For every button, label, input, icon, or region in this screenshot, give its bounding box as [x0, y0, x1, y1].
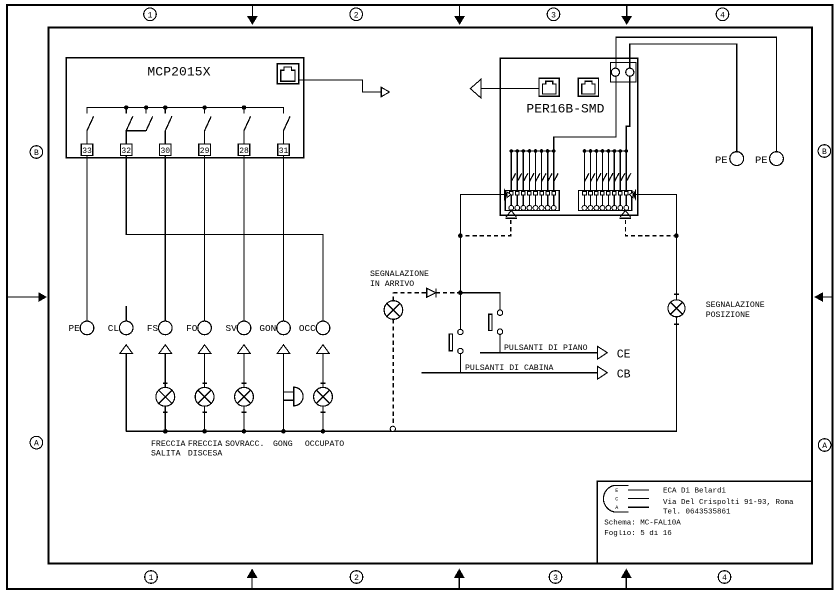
- label FRECCIA DISCESA: [188, 440, 222, 459]
- relay contact pin: [606, 149, 613, 210]
- rail junction dot: [281, 429, 286, 434]
- svg-text:CE: CE: [617, 349, 631, 362]
- svg-text:Via Del Crispolti 91-93, Roma: Via Del Crispolti 91-93, Roma: [663, 499, 794, 507]
- bus junction dot: [242, 105, 246, 113]
- wire switch to terminal 28: [243, 131, 245, 144]
- rail junction dot: [242, 429, 247, 434]
- wire switch to terminal 32: [125, 131, 127, 144]
- wire switch to terminal 29: [204, 131, 206, 144]
- junction dot left: [458, 233, 463, 238]
- zone marker 2 top: [350, 8, 363, 21]
- wire 33 to PE: [86, 156, 88, 322]
- zone marker 1 top: [144, 8, 157, 21]
- svg-text:A: A: [615, 505, 618, 511]
- lamp OCC: [314, 387, 333, 406]
- relay contact pin: [618, 149, 625, 210]
- rail junction dot: [321, 429, 326, 434]
- relay contact pin: [533, 149, 540, 210]
- bus junction dot: [202, 105, 206, 113]
- terminal 30 of U1: [160, 144, 172, 156]
- svg-text:A: A: [34, 440, 39, 449]
- svg-text:4: 4: [720, 11, 725, 20]
- zone marker 3 bottom: [549, 571, 562, 584]
- svg-text:Tel. 0643535861: Tel. 0643535861: [663, 509, 731, 517]
- wire TB1 pin1 down to left relay bus: [554, 76, 616, 151]
- connector J3 RJ45 jack on U2: [578, 78, 598, 96]
- schema reference text: [604, 520, 681, 539]
- arrow symbol under GON: [277, 345, 290, 354]
- arrow symbol under FO: [198, 345, 211, 354]
- relay contact pin: [624, 149, 631, 210]
- relay contact pin: [521, 149, 528, 210]
- diode in arrivo line: [427, 288, 436, 297]
- wire junction down to button S1: [459, 293, 461, 330]
- svg-text:SEGNALAZIONE: SEGNALAZIONE: [370, 270, 429, 279]
- junction dot right: [674, 233, 679, 238]
- svg-text:33: 33: [82, 147, 92, 156]
- relay contact pin: [582, 149, 589, 210]
- wire X2 to right vertical: [636, 195, 677, 236]
- wire FO arrow to lamp: [202, 354, 207, 388]
- centring mark right: [814, 292, 832, 302]
- svg-text:30: 30: [160, 147, 170, 156]
- label OCCUPATO: [305, 440, 344, 449]
- arrow (bus continues right): [381, 87, 389, 97]
- svg-text:32: 32: [121, 147, 131, 156]
- centring mark bottom: [621, 569, 632, 589]
- switch contact blade: [284, 116, 291, 130]
- svg-text:29: 29: [200, 147, 210, 156]
- label FRECCIA SALITA: [151, 440, 185, 459]
- centring mark top: [621, 5, 632, 25]
- centring mark top: [454, 5, 465, 25]
- relay contact pin: [515, 149, 522, 210]
- wire 30 to FS: [164, 156, 166, 322]
- wire S2 to piano line: [499, 334, 501, 352]
- zone marker A left: [30, 436, 43, 449]
- centring mark bottom: [247, 569, 258, 589]
- pushbutton S2 (piano): [489, 310, 503, 334]
- svg-text:2: 2: [354, 11, 359, 20]
- rail junction dot: [202, 429, 207, 434]
- svg-text:4: 4: [722, 574, 727, 583]
- svg-text:FRECCIA: FRECCIA: [188, 440, 222, 449]
- svg-text:PE: PE: [755, 155, 768, 167]
- svg-text:SALITA: SALITA: [151, 450, 181, 459]
- terminal PE right: [755, 152, 783, 167]
- connector J1 RJ45 jack on U1: [277, 64, 299, 84]
- wire TB1 pin2 to PE left: [630, 44, 737, 152]
- dashed wire lamp bottom to rail: [392, 319, 394, 426]
- svg-text:1: 1: [149, 574, 154, 583]
- stub wire above CL: [125, 306, 127, 321]
- pushbutton S1 (cabina): [449, 329, 463, 353]
- wire switch to terminal 33: [86, 131, 88, 144]
- wire X1 to left vertical: [460, 195, 504, 293]
- svg-text:3: 3: [551, 11, 556, 20]
- switch contact blade: [244, 116, 251, 130]
- svg-text:PE: PE: [715, 155, 728, 167]
- arrow symbol under SV: [238, 345, 251, 354]
- svg-text:FS: FS: [147, 323, 159, 334]
- svg-text:C: C: [615, 496, 618, 502]
- company logo ECA: [603, 485, 648, 512]
- centring mark left: [7, 292, 47, 302]
- relay contact pin: [551, 149, 558, 210]
- dashed wire X1 mark to junction: [460, 220, 510, 236]
- wire lamp OCC to rail: [321, 406, 326, 431]
- switch contact blade: [126, 116, 133, 130]
- relay contact pin: [545, 149, 552, 210]
- title block frame: [597, 481, 812, 563]
- svg-text:PER16B-SMD: PER16B-SMD: [526, 102, 604, 117]
- wire 29 to FO: [204, 156, 206, 322]
- zone marker 2 bottom: [350, 571, 363, 584]
- node junction main left: [458, 290, 463, 295]
- svg-text:SV: SV: [226, 323, 238, 334]
- svg-text:3: 3: [553, 574, 558, 583]
- U1 internal common bus: [87, 108, 284, 114]
- switch contact blade: [87, 116, 94, 130]
- wire switch to terminal 31: [283, 131, 285, 144]
- svg-text:POSIZIONE: POSIZIONE: [706, 311, 750, 320]
- wire FS arrow to lamp: [163, 354, 168, 388]
- plug-in point circle on rail: [390, 426, 395, 431]
- wire S1 to cabina line: [459, 354, 461, 373]
- lamp FS: [156, 387, 175, 406]
- svg-text:PE: PE: [69, 323, 81, 334]
- svg-text:A: A: [822, 442, 827, 451]
- terminal 32 of U1: [120, 144, 132, 156]
- lamp SV: [235, 387, 254, 406]
- node FS: [147, 321, 172, 335]
- lamp FO: [195, 387, 214, 406]
- svg-text:PULSANTI DI PIANO: PULSANTI DI PIANO: [504, 344, 588, 353]
- centring mark top: [247, 5, 258, 25]
- terminal 28 of U1: [238, 144, 250, 156]
- wire lamp FO to rail: [202, 406, 207, 431]
- wire junction down to posizione lamp: [674, 236, 679, 300]
- title block address text: [663, 488, 794, 517]
- relay contact pin: [527, 149, 534, 210]
- svg-text:E: E: [615, 488, 618, 494]
- wire CL arrow to rail: [125, 354, 127, 432]
- centring mark bottom: [454, 569, 465, 589]
- bottom common rail wire: [126, 317, 676, 432]
- IC U1 MCP2015X box: [66, 58, 304, 158]
- svg-text:Schema: MC-FAL10A: Schema: MC-FAL10A: [604, 520, 681, 528]
- label SOVRACC.: [225, 440, 264, 449]
- svg-text:1: 1: [148, 11, 153, 20]
- relay contact bus right: [585, 150, 627, 152]
- svg-text:SOVRACC.: SOVRACC.: [225, 440, 264, 449]
- zone marker A right: [818, 439, 831, 452]
- terminal 33 of U1: [81, 144, 93, 156]
- node OCC: [299, 321, 330, 335]
- svg-text:IN ARRIVO: IN ARRIVO: [370, 280, 414, 289]
- connector X2 output strip right: [578, 190, 631, 210]
- svg-text:CB: CB: [617, 369, 631, 382]
- svg-text:SEGNALAZIONE: SEGNALAZIONE: [706, 301, 765, 310]
- svg-text:B: B: [822, 148, 827, 157]
- node GON: [259, 321, 290, 335]
- relay contact pin: [509, 149, 516, 210]
- wire from J1 to bus arrow: [299, 80, 381, 92]
- arrow symbol under CL: [120, 345, 133, 354]
- svg-text:Foglio: 5 di 16: Foglio: 5 di 16: [604, 530, 672, 538]
- relay contact pin: [588, 149, 595, 210]
- svg-text:OCCUPATO: OCCUPATO: [305, 440, 344, 449]
- connector X1 output strip left: [505, 190, 559, 210]
- svg-text:PULSANTI DI CABINA: PULSANTI DI CABINA: [465, 364, 554, 373]
- switch contact blade: [146, 116, 153, 130]
- wire lamp SV to rail: [242, 406, 247, 431]
- wire 28 to SV: [243, 156, 245, 322]
- wire and arrow left of U2: [470, 79, 539, 98]
- terminal block TB1 (2 pin): [610, 62, 636, 82]
- wire OCC arrow to lamp: [321, 354, 326, 388]
- label SEGNALAZIONE IN ARRIVO: [370, 270, 429, 289]
- connector J2 RJ45 jack on U2: [539, 78, 559, 96]
- relay contact pin: [600, 149, 607, 210]
- switch contact blade: [165, 116, 172, 130]
- gong (bell) symbol: [284, 387, 304, 406]
- zone marker 4 bottom: [718, 571, 731, 584]
- svg-text:28: 28: [239, 147, 249, 156]
- wire 32 to OCC: [126, 156, 323, 322]
- bus junction dot: [124, 105, 128, 113]
- svg-text:31: 31: [279, 147, 289, 156]
- wire lamp FS to rail: [163, 406, 168, 431]
- terminal 29 of U1: [199, 144, 211, 156]
- svg-text:FO: FO: [186, 323, 198, 334]
- relay contact pin: [612, 149, 619, 210]
- terminal 31 of U1: [278, 144, 290, 156]
- svg-text:OCC: OCC: [299, 323, 316, 334]
- arrow CE: [597, 346, 630, 362]
- node PE: [69, 321, 94, 335]
- wire SV arrow to lamp: [242, 354, 247, 388]
- wire TB1 pin2 down to right relay bus: [626, 76, 630, 151]
- zone marker B right: [818, 145, 831, 158]
- svg-text:B: B: [34, 149, 39, 158]
- relay contact pin: [594, 149, 601, 210]
- label GONG: [273, 440, 293, 449]
- svg-text:GONG: GONG: [273, 440, 293, 449]
- lamp segnalazione posizione: [668, 300, 685, 324]
- svg-text:DISCESA: DISCESA: [188, 450, 222, 459]
- arrow symbol under FS: [159, 345, 172, 354]
- dashed wire X2 mark to junction: [625, 220, 676, 236]
- node CL: [108, 321, 133, 335]
- cable entry mark under X2: [620, 211, 632, 219]
- arrow CB: [597, 366, 630, 382]
- IC U2 PER16B-SMD box: [500, 58, 637, 215]
- zone marker 3 top: [547, 8, 560, 21]
- node FO: [186, 321, 211, 335]
- wire 31 to GON: [283, 156, 285, 322]
- label SEGNALAZIONE POSIZIONE: [706, 301, 765, 320]
- bus junction dot: [144, 105, 148, 113]
- switch contact blade: [205, 116, 212, 130]
- bus junction dot: [163, 105, 167, 113]
- polarity mark X2: [629, 189, 636, 201]
- wire linking paired contact of 32: [126, 130, 146, 132]
- arrow symbol under OCC: [317, 345, 330, 354]
- zone marker 1 bottom: [145, 571, 158, 584]
- svg-text:MCP2015X: MCP2015X: [147, 65, 210, 80]
- node SV: [226, 321, 251, 335]
- wire GON arrow down: [283, 354, 285, 432]
- terminal PE left: [715, 152, 744, 167]
- wire TB1 pin1 to PE right: [616, 37, 777, 152]
- cable entry mark under X1: [506, 211, 518, 219]
- lamp segnalazione in arrivo: [384, 301, 403, 320]
- zone marker 4 top: [716, 8, 729, 21]
- svg-text:ECA Di Belardi: ECA Di Belardi: [663, 488, 727, 496]
- polarity mark X1: [504, 189, 511, 201]
- relay contact pin: [539, 149, 546, 210]
- svg-text:GON: GON: [259, 323, 276, 334]
- relay contact bus left: [511, 150, 554, 152]
- bus line pulsanti di cabina: [422, 364, 598, 373]
- svg-text:2: 2: [354, 574, 359, 583]
- wire junction to button S2: [460, 293, 500, 310]
- bus line pulsanti di piano: [480, 344, 597, 353]
- zone marker B left: [30, 146, 43, 159]
- svg-text:CL: CL: [108, 323, 120, 334]
- svg-text:FRECCIA: FRECCIA: [151, 440, 185, 449]
- dashed wire lamp top to junction: [393, 293, 460, 301]
- rail junction dot: [163, 429, 168, 434]
- wire switch to terminal 30: [164, 131, 166, 144]
